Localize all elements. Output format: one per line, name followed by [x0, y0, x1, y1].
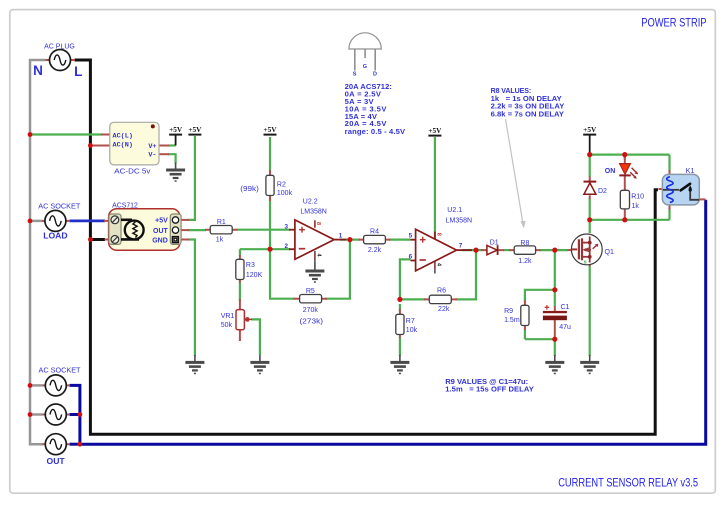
svg-text:7: 7	[459, 243, 463, 250]
svg-text:LM358N: LM358N	[300, 208, 326, 215]
svg-text:C1: C1	[561, 304, 570, 311]
svg-text:R1: R1	[217, 219, 226, 226]
svg-text:AC SOCKET: AC SOCKET	[38, 203, 81, 210]
svg-text:1k: 1k	[632, 203, 640, 210]
svg-text:POWER STRIP: POWER STRIP	[641, 16, 706, 29]
svg-text:AC(L): AC(L)	[113, 132, 133, 140]
svg-text:s: s	[584, 260, 587, 266]
svg-text:R8: R8	[520, 240, 529, 247]
svg-text:ACS712: ACS712	[112, 203, 138, 210]
svg-text:6.8k = 7s ON DELAY: 6.8k = 7s ON DELAY	[491, 109, 564, 118]
svg-text:range: 0.5 - 4.5V: range: 0.5 - 4.5V	[345, 127, 406, 136]
svg-text:V+: V+	[148, 143, 156, 151]
svg-text:5: 5	[409, 233, 413, 240]
svg-text:LOAD: LOAD	[43, 231, 67, 241]
svg-text:ON: ON	[605, 168, 616, 175]
svg-text:8: 8	[435, 233, 441, 236]
svg-text:1.5m: 1.5m	[504, 317, 520, 324]
svg-text:R7: R7	[406, 318, 415, 325]
svg-text:AC SOCKET: AC SOCKET	[39, 368, 82, 375]
svg-text:1.5m = 15s OFF DELAY: 1.5m = 15s OFF DELAY	[445, 384, 534, 393]
svg-text:2: 2	[284, 243, 288, 250]
svg-text:D2: D2	[598, 188, 607, 195]
svg-text:R6: R6	[437, 287, 446, 294]
svg-text:50k: 50k	[221, 322, 233, 329]
svg-text:U2.2: U2.2	[303, 199, 318, 206]
svg-text:R3: R3	[246, 262, 255, 269]
svg-text:2.2k: 2.2k	[368, 247, 382, 254]
svg-text:R2: R2	[277, 182, 286, 189]
svg-text:+5V: +5V	[155, 218, 168, 225]
svg-text:270k: 270k	[303, 307, 319, 314]
svg-text:100k: 100k	[277, 190, 293, 197]
svg-text:Q1: Q1	[605, 249, 614, 256]
svg-text:AC PLUG: AC PLUG	[44, 44, 75, 51]
svg-text:V-: V-	[148, 152, 156, 160]
svg-text:L: L	[74, 64, 82, 79]
svg-text:GND: GND	[152, 237, 168, 244]
svg-text:AC-DC 5v: AC-DC 5v	[114, 168, 151, 175]
svg-text:1.2k: 1.2k	[518, 258, 532, 265]
svg-text:VR1: VR1	[221, 313, 235, 320]
svg-text:LM358N: LM358N	[446, 217, 472, 224]
svg-text:3: 3	[284, 223, 288, 230]
svg-text:6: 6	[409, 254, 413, 261]
svg-text:120K: 120K	[246, 272, 263, 279]
svg-text:(99k): (99k)	[240, 186, 258, 193]
svg-text:U2.1: U2.1	[447, 207, 462, 214]
svg-text:R4: R4	[370, 229, 379, 236]
svg-text:8: 8	[315, 222, 321, 225]
svg-text:K1: K1	[686, 168, 695, 175]
svg-text:1k: 1k	[216, 236, 224, 243]
svg-text:10k: 10k	[406, 327, 418, 334]
svg-text:G: G	[363, 64, 367, 70]
svg-text:AC(N): AC(N)	[113, 142, 133, 150]
svg-text:CURRENT SENSOR RELAY v3.5: CURRENT SENSOR RELAY v3.5	[558, 476, 698, 489]
svg-text:22k: 22k	[438, 306, 450, 313]
svg-text:D: D	[373, 71, 377, 77]
svg-text:R10: R10	[631, 193, 644, 200]
svg-text:S: S	[353, 71, 357, 77]
svg-text:N: N	[33, 63, 43, 78]
svg-text:(273k): (273k)	[300, 319, 324, 326]
svg-text:D1: D1	[490, 240, 499, 247]
svg-text:R9: R9	[504, 308, 513, 315]
svg-text:47u: 47u	[559, 324, 571, 331]
svg-text:OUT: OUT	[47, 456, 66, 466]
svg-text:R5: R5	[306, 288, 315, 295]
svg-text:1: 1	[339, 233, 343, 240]
svg-text:OUT: OUT	[153, 228, 169, 235]
